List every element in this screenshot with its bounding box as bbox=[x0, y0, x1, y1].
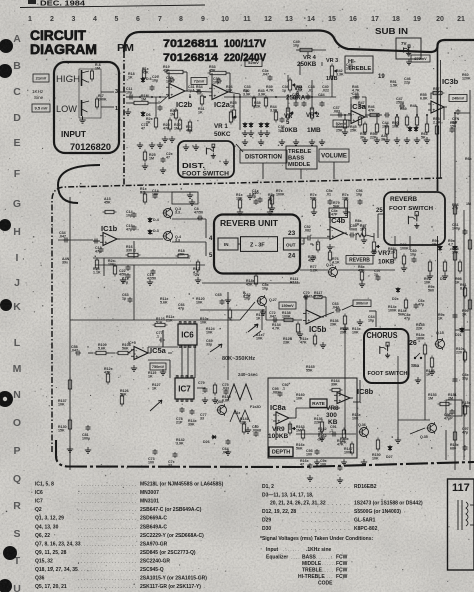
dist footswitch box bbox=[178, 141, 234, 178]
input wire to pin 3 bbox=[101, 91, 114, 93]
IC1b input wire bbox=[93, 239, 100, 244]
date bar mark bbox=[28, 0, 36, 4]
label FOOT SWITCH (rev) bbox=[389, 206, 433, 212]
mid band bus wires bbox=[93, 241, 205, 285]
junction dots preamp bbox=[139, 96, 428, 116]
transistor Q27 bbox=[243, 291, 277, 341]
boxed level 750mV bbox=[150, 363, 166, 370]
pot VR7 10KB bbox=[372, 240, 395, 266]
right col extra parts bbox=[453, 204, 468, 452]
preamp signal bus bbox=[119, 92, 330, 130]
feedback over IC5b bbox=[303, 297, 326, 317]
pin 19 bbox=[378, 74, 385, 80]
wire tone to IC3a bbox=[330, 106, 352, 118]
upper rail parts bbox=[215, 293, 225, 305]
capacitor C36 bbox=[278, 117, 285, 133]
ground at R17 bbox=[195, 277, 201, 283]
tone stack verticals bbox=[288, 62, 332, 112]
parts list right column bbox=[262, 484, 423, 532]
wire distortion link bbox=[172, 144, 243, 204]
mid grounds bbox=[237, 209, 407, 287]
op-amp IC2a bbox=[209, 85, 231, 110]
hi-treble cap C47 bbox=[396, 97, 405, 109]
resistor R17 4.7 bbox=[193, 260, 200, 278]
mid extra parts bbox=[238, 198, 416, 283]
wire IC2a out bbox=[228, 92, 240, 97]
resistor R18 25K bbox=[176, 249, 191, 258]
misc vertical wires preamp bbox=[156, 94, 427, 124]
feedback R57 over IC3b bbox=[431, 87, 445, 99]
binder hole dots bbox=[0, 39, 17, 592]
preamp speckle labels bbox=[128, 63, 471, 129]
label CHORUS bbox=[367, 331, 398, 340]
bottom spill parts bbox=[300, 459, 343, 483]
reverb out wire bbox=[300, 238, 304, 244]
capacitor C70 area bbox=[303, 291, 325, 300]
page top edge line bbox=[20, 5, 205, 8]
resistors at IC3a bbox=[336, 118, 357, 133]
capacitor C35 bbox=[213, 77, 222, 85]
chorus band speckle bbox=[244, 293, 425, 335]
resistor R6 1M bbox=[91, 63, 101, 82]
label SUB IN bbox=[375, 27, 408, 36]
parts list left column bbox=[35, 482, 224, 591]
long verticals bbox=[134, 265, 425, 440]
right column parts q bbox=[462, 238, 472, 317]
wire IC3b out down bbox=[444, 107, 461, 125]
pot VR8 300KB bbox=[326, 405, 339, 426]
label DIST. bbox=[182, 161, 205, 170]
chorus footswitch box bbox=[364, 329, 409, 383]
mod to chorus wires bbox=[353, 380, 360, 402]
preamp extra parts bbox=[142, 68, 454, 137]
capacitor C31 bbox=[188, 85, 202, 95]
resistors at IC5b bbox=[283, 319, 339, 347]
resistor R46 series bbox=[368, 105, 382, 117]
label R165 bbox=[306, 365, 315, 373]
title DIAGRAM bbox=[30, 41, 97, 57]
chorus footswitch jack bbox=[380, 342, 390, 358]
dist footswitch jack bbox=[206, 144, 228, 165]
capacitor C52 .082 bbox=[300, 225, 330, 241]
label REVERB (fs) bbox=[390, 196, 417, 203]
label 80K-350KHz bbox=[222, 356, 255, 362]
label PM bbox=[117, 43, 134, 54]
resistor R76 bbox=[308, 240, 340, 265]
capacitor C7 bbox=[141, 105, 163, 131]
diode ground row bbox=[242, 130, 270, 136]
R142 label bbox=[176, 435, 217, 445]
column numbers 1-21 bbox=[28, 16, 465, 23]
op-amp IC8b bbox=[334, 387, 374, 404]
resistor R7 200K bbox=[96, 94, 107, 110]
resistor R123 bbox=[153, 317, 168, 327]
bottom caps bbox=[148, 400, 261, 468]
capacitor C11 bbox=[126, 87, 134, 100]
pot VR6 250KA bbox=[286, 78, 306, 102]
right rail wires bbox=[438, 90, 471, 470]
boxed level 870mV bbox=[411, 55, 430, 62]
boxed level 72mV bbox=[191, 78, 207, 85]
capacitor C30 bbox=[166, 76, 175, 84]
reverb drive wires bbox=[117, 219, 206, 256]
title CIRCUIT bbox=[30, 27, 86, 43]
label REVERB UNIT bbox=[220, 219, 278, 228]
preamp long bus wire bbox=[126, 96, 336, 98]
pin 1 bbox=[115, 106, 118, 112]
long feedback wire bbox=[148, 330, 178, 378]
pot VR2 1MB bbox=[306, 106, 321, 135]
wire IC3a out bbox=[365, 114, 382, 116]
ic67 speckle labels bbox=[104, 297, 261, 433]
misc vertical wires mid bbox=[313, 233, 395, 246]
label 117 box bbox=[448, 479, 474, 570]
resistor R44 bbox=[262, 69, 278, 123]
dip IC7 bbox=[175, 375, 194, 401]
box DISTORTION bbox=[240, 150, 287, 163]
pot VR3 1MB bbox=[326, 58, 338, 82]
caps C14 C15 bbox=[126, 210, 137, 232]
box RATE bbox=[310, 399, 327, 407]
part number 70126814 220/240V bbox=[163, 52, 267, 64]
reverb tank Z-3F bbox=[241, 237, 278, 252]
ic67 extra parts bbox=[106, 308, 258, 438]
IC5b out cap C63 bbox=[321, 302, 353, 317]
input jack contacts LOW bbox=[82, 100, 90, 116]
bottom right extras bbox=[392, 287, 470, 340]
input ground bbox=[79, 116, 85, 123]
pin 5 bbox=[209, 253, 213, 259]
resistor R119 1K bbox=[148, 371, 156, 379]
input shield arc bbox=[58, 165, 100, 203]
label HIGH bbox=[56, 74, 80, 84]
diode D6 bbox=[141, 77, 152, 117]
under reverb grounds bbox=[202, 244, 377, 291]
chorus mix parts bbox=[314, 417, 349, 445]
pin 25 bbox=[376, 208, 383, 214]
op-amp IC4b bbox=[327, 216, 347, 240]
chorus send bus bbox=[369, 311, 376, 327]
chorus row wires bbox=[93, 302, 302, 323]
mod core grounds bbox=[131, 297, 231, 403]
cap C22 bbox=[119, 269, 156, 281]
right vertical bus line bbox=[437, 180, 439, 191]
main board bottom border bbox=[56, 440, 474, 467]
switch S5 bbox=[411, 353, 422, 368]
LFO wires bbox=[276, 408, 340, 440]
capacitor C8 47u bbox=[194, 207, 203, 221]
main board left dash-dot border lower bbox=[52, 178, 444, 452]
pin 24 bbox=[288, 253, 296, 260]
mixer resistor R144 bbox=[340, 314, 349, 335]
diag arrows bbox=[150, 344, 222, 411]
boxed level 240mV bbox=[449, 95, 467, 102]
boxed level 52mV bbox=[245, 59, 349, 127]
boxed level 9.5mV bbox=[32, 104, 50, 112]
right diodes bbox=[455, 327, 464, 337]
chorus right parts bbox=[415, 331, 445, 383]
label INPUT bbox=[61, 129, 87, 139]
ground row under preamp bbox=[137, 129, 430, 150]
triangle wave symbols bbox=[228, 384, 252, 422]
Q35 area bbox=[420, 393, 462, 439]
capacitor C13 bbox=[95, 246, 104, 254]
op-amp IC8a bbox=[270, 403, 292, 424]
Q36 area bbox=[344, 423, 401, 465]
right column node bbox=[454, 112, 456, 114]
LFO small parts bbox=[296, 425, 347, 465]
mid speckle labels bbox=[236, 189, 417, 285]
main board top border bbox=[124, 31, 438, 53]
resistor R14 1M bbox=[125, 94, 151, 115]
right area parts y260-290 bbox=[424, 260, 462, 285]
row letters A-U bbox=[13, 33, 22, 592]
resistor R31 bbox=[170, 94, 205, 121]
label FOOT SWITCH (dist) bbox=[182, 172, 229, 178]
distortion diode pair D3 D4 bbox=[243, 89, 253, 128]
boxed level 300mV bbox=[353, 300, 371, 307]
top rail wires bbox=[200, 292, 265, 310]
mixer caps C44 bbox=[382, 113, 399, 129]
label 70126820 bbox=[70, 142, 111, 152]
misc wires chorus bbox=[70, 320, 134, 353]
lower preamp labels bbox=[146, 101, 428, 142]
box DEPTH bbox=[269, 447, 293, 457]
pin 4 bbox=[209, 236, 213, 242]
resistor network before IC3b bbox=[395, 104, 418, 128]
op-amp IC5b bbox=[303, 310, 326, 334]
ground IC1b area bbox=[120, 199, 195, 285]
boxed level 150mV bbox=[279, 302, 296, 309]
box VOLUME bbox=[319, 149, 349, 162]
pot VR1 50KC bbox=[214, 110, 237, 139]
box REVERB bbox=[346, 256, 373, 265]
op-amp IC5a bbox=[128, 341, 167, 360]
resistor R16 330 bbox=[126, 187, 197, 257]
op-amp IC1b bbox=[100, 224, 120, 246]
left vertical rail bbox=[58, 197, 93, 470]
resistor R23 bbox=[93, 258, 101, 275]
cap C77 bbox=[156, 331, 165, 343]
label 1KHz sine bbox=[32, 89, 44, 100]
input jack contacts HIGH bbox=[79, 69, 101, 118]
op-amp IC3b bbox=[428, 77, 459, 113]
input wire to pin 1 bbox=[101, 106, 114, 108]
reverb unit top parts bbox=[252, 189, 285, 211]
tone stack capacitors bbox=[292, 93, 325, 107]
sub-in jack bbox=[396, 38, 421, 65]
feedback over IC8b bbox=[330, 379, 343, 396]
reverb fs wire bbox=[378, 214, 384, 238]
mid right components bbox=[355, 210, 464, 460]
reverb footswitch jack bbox=[408, 212, 419, 229]
box HI-TREBLE bbox=[345, 56, 373, 73]
ground chorus row bbox=[260, 309, 363, 348]
main board left dash-dot border upper bbox=[123, 52, 125, 186]
resistor R13 45K bbox=[103, 197, 117, 214]
input jack enclosure bbox=[54, 62, 119, 153]
IC6 to IC7 wires bbox=[182, 345, 195, 378]
ground under reverb unit bbox=[187, 192, 253, 199]
wire input bus bbox=[126, 95, 169, 103]
right area diodes bbox=[432, 239, 457, 251]
IC7 side parts bbox=[198, 381, 217, 396]
transistor Q21 bbox=[300, 263, 395, 278]
pot VR9 100KB bbox=[268, 422, 296, 441]
label LOW bbox=[56, 104, 78, 114]
reverb footswitch box bbox=[384, 192, 445, 245]
transformer sketch bbox=[458, 500, 474, 530]
right column parts upper bbox=[455, 113, 472, 206]
transistor Q4 bbox=[163, 230, 182, 243]
caps under IC7 bbox=[176, 407, 207, 427]
box TREBLE BASS MIDDLE bbox=[286, 146, 317, 169]
feedback R79 over IC4b bbox=[329, 201, 350, 230]
label 240-1sec bbox=[238, 372, 258, 377]
distortion diode pair D5 D6b bbox=[258, 89, 269, 128]
signal voltages note bbox=[260, 536, 373, 587]
lfo speckle bbox=[282, 383, 361, 451]
reverb send bus bbox=[238, 243, 240, 245]
boxed level 21mV bbox=[33, 74, 49, 82]
label FOOT SWITCH (chorus) bbox=[368, 371, 408, 377]
diodes D4 D3 bbox=[148, 217, 159, 235]
reverb OUT box bbox=[283, 238, 299, 250]
signal arrow bbox=[248, 324, 261, 337]
left column parts bbox=[58, 343, 131, 453]
reverb unit box bbox=[214, 215, 300, 274]
left mid sparse parts bbox=[142, 150, 173, 174]
LFO block outline bbox=[268, 378, 357, 458]
cap C95 at IC8a bbox=[272, 387, 283, 397]
pin 26 bbox=[409, 340, 417, 347]
pin 23 bbox=[288, 230, 296, 237]
lower right wires bbox=[296, 420, 446, 460]
lower preamp resistors bbox=[154, 108, 428, 137]
wire IC2b out bbox=[185, 91, 212, 92]
pot VR5 10KB bbox=[281, 106, 298, 135]
reverb IN box bbox=[218, 238, 238, 250]
feedback R33 over IC2a bbox=[208, 65, 231, 92]
dip IC6 bbox=[178, 321, 197, 347]
pin 3 bbox=[115, 89, 118, 95]
cap C63b bbox=[122, 293, 133, 303]
pot VR4 250KB bbox=[293, 40, 326, 68]
sub-in loop border bbox=[438, 40, 474, 180]
right col speckle bbox=[418, 203, 471, 451]
op-amp IC3a bbox=[348, 85, 368, 124]
date label DEC. 1984 bbox=[40, 1, 85, 8]
transistor Q3 bbox=[163, 207, 182, 219]
control box stubs bbox=[263, 162, 410, 250]
extra wires chorus bbox=[148, 244, 313, 388]
IC6 labels bbox=[166, 315, 209, 325]
feedback R19 over IC2b bbox=[163, 65, 187, 91]
IC4b out wire bbox=[344, 224, 374, 238]
part number 70126811 100/117V bbox=[163, 38, 267, 50]
op-amp IC2b bbox=[166, 84, 193, 110]
